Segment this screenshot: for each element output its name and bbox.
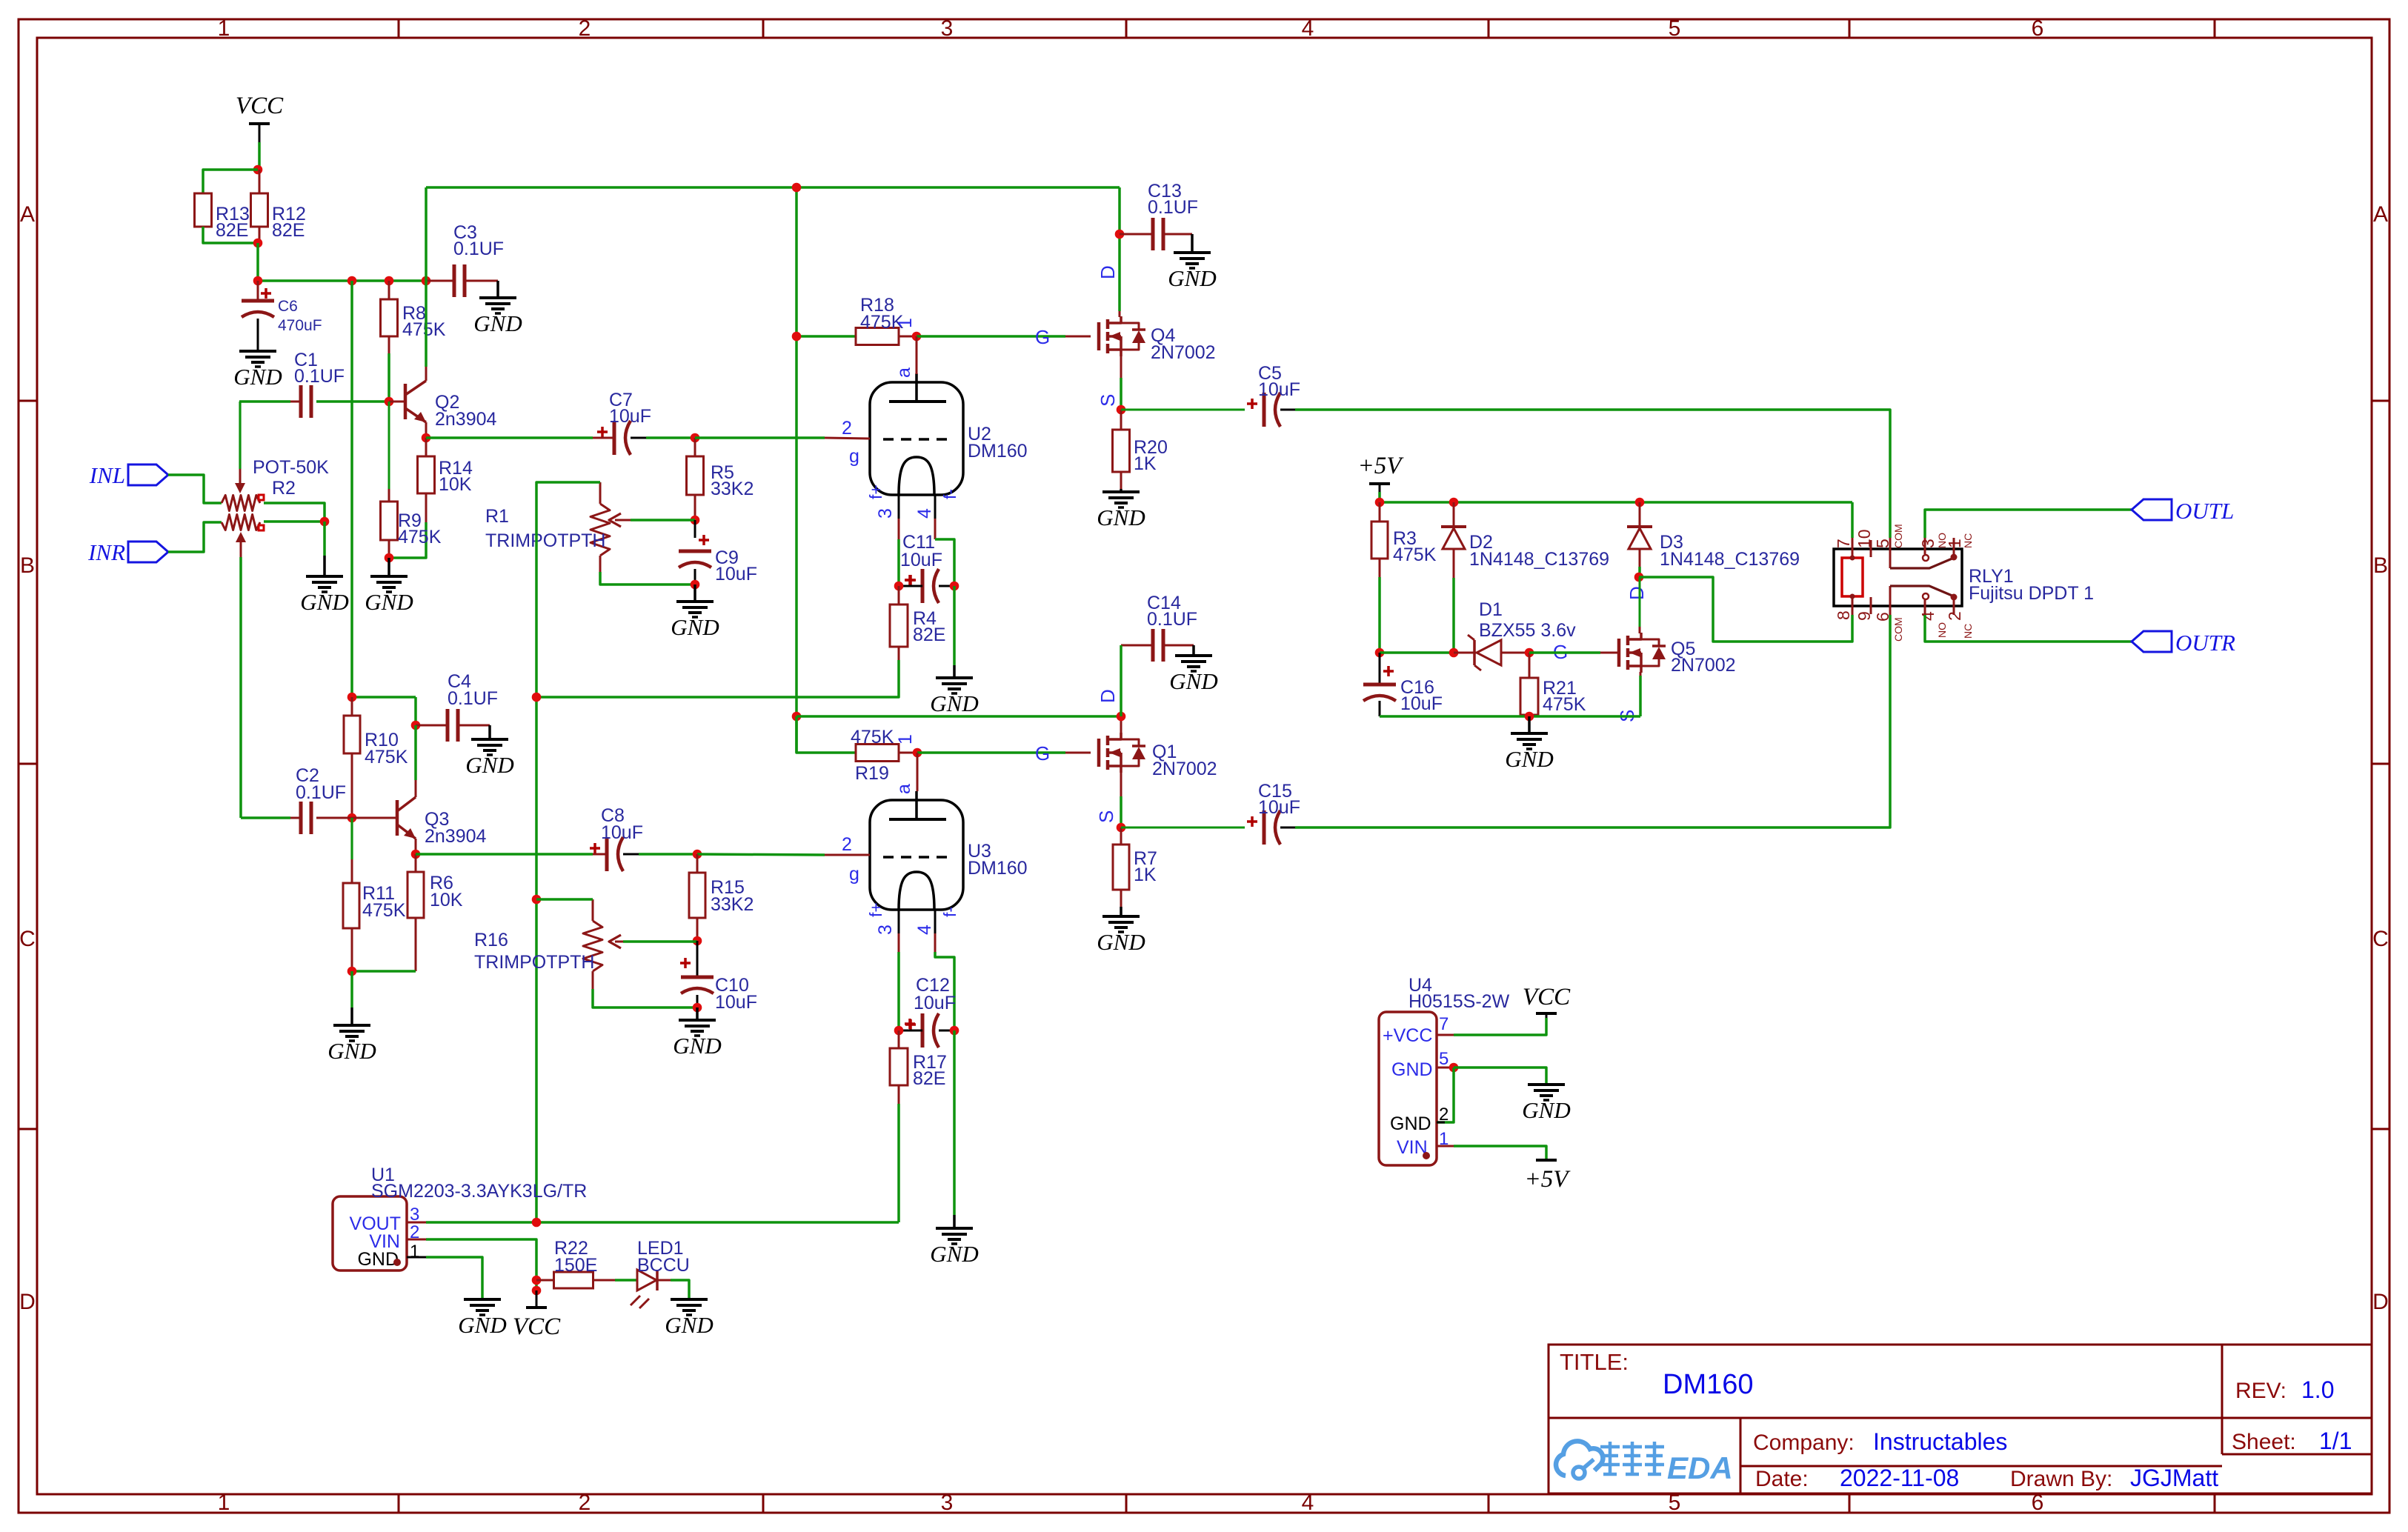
node gnd tap (1525, 712, 1534, 722)
ground under R7 (1097, 907, 1145, 955)
resistor R4 (890, 586, 945, 660)
wire rail941 left segment (352, 696, 416, 699)
ground under U1 (458, 1299, 506, 1338)
wire R1 bottom to C9 bottom (600, 572, 695, 585)
svg-text:NC: NC (1962, 533, 1974, 548)
capacitor C5 electrolytic (1121, 363, 1300, 427)
wire C4 down to Q3 collector (414, 725, 417, 780)
wire R18 to Q4 gate (917, 335, 1065, 338)
node rail967-C14 (1117, 712, 1126, 722)
node R18/U2 anode (912, 332, 922, 342)
svg-text:1N4148_C13769: 1N4148_C13769 (1660, 549, 1800, 570)
wire pot lower wiper to C2 (239, 557, 242, 818)
node rail-x475 (347, 276, 357, 286)
label S Q1 (1095, 810, 1117, 823)
ground under C14 (1169, 645, 1217, 694)
port OUTL (2132, 498, 2234, 524)
wire pot lower terminal (264, 520, 325, 523)
label S Q4 (1097, 394, 1119, 407)
svg-text:DM160: DM160 (1663, 1369, 1754, 1400)
resistor R3 (1371, 502, 1437, 577)
Q3 collector lead (415, 780, 417, 797)
svg-text:2N7002: 2N7002 (1671, 655, 1736, 676)
svg-text:0.1UF: 0.1UF (1148, 197, 1198, 218)
wire U1 gnd (426, 1257, 482, 1299)
svg-text:R19: R19 (855, 763, 889, 784)
svg-text:4: 4 (1302, 1491, 1314, 1515)
ground under U4 (1522, 1085, 1570, 1123)
power flag +5V bottom (1525, 1160, 1571, 1193)
svg-text:D: D (1097, 689, 1119, 703)
node R9/R14 bottom (385, 553, 394, 563)
svg-text:0.1UF: 0.1UF (448, 688, 498, 709)
svg-text:D: D (2372, 1290, 2389, 1314)
svg-text:a: a (894, 784, 914, 794)
ground under C4 (465, 725, 513, 778)
wire VIN to VCC (426, 1239, 536, 1290)
svg-text:475K: 475K (851, 727, 894, 747)
wire pin5 to pin2 (1437, 1068, 1454, 1122)
ground under C11 right (930, 665, 978, 716)
svg-text:OUTL: OUTL (2175, 498, 2234, 524)
node x1075-R18 (792, 332, 802, 342)
title block REV (2235, 1376, 2334, 1403)
wire Q1 source (1120, 796, 1122, 827)
wire C8 to R15/U3 grid (639, 853, 697, 856)
svg-text:B: B (20, 553, 35, 578)
wire C7 to R5/U2 grid (646, 436, 695, 439)
ground under R20 (1097, 489, 1145, 530)
svg-text:2n3904: 2n3904 (425, 826, 487, 847)
svg-text:GND: GND (465, 752, 513, 778)
svg-text:GND: GND (1168, 265, 1216, 291)
wire R19 to Q1 gate (917, 751, 1065, 754)
regulator U1 SGM2203 (333, 1165, 587, 1270)
wire R18 left (796, 335, 856, 338)
wire relay pin4 to OUTR (1925, 615, 2132, 642)
svg-text:0.1UF: 0.1UF (296, 782, 346, 803)
capacitor C13 (1120, 181, 1198, 250)
svg-text:475K: 475K (365, 747, 408, 767)
resistor R22 (536, 1238, 615, 1288)
svg-text:GND: GND (365, 589, 413, 615)
svg-text:10K: 10K (439, 474, 472, 495)
svg-text:EDA: EDA (1667, 1451, 1733, 1485)
svg-text:H0515S-2W: H0515S-2W (1408, 991, 1510, 1012)
Q4 source lead (1120, 356, 1122, 378)
svg-text:SGM2203-3.3AYK3LG/TR: SGM2203-3.3AYK3LG/TR (371, 1181, 587, 1202)
svg-text:A: A (20, 202, 35, 227)
potentiometer R2 POT-50K (222, 457, 329, 557)
svg-text:2: 2 (842, 418, 852, 439)
wire 5V rail y678 (1380, 501, 1852, 504)
svg-text:10uF: 10uF (609, 406, 651, 427)
label D Q5 (1626, 586, 1648, 600)
svg-text:1: 1 (895, 734, 916, 745)
svg-text:150E: 150E (554, 1255, 597, 1276)
svg-text:470uF: 470uF (278, 317, 322, 334)
svg-text:f-: f- (940, 489, 959, 499)
diode D2 1N4148 (1441, 502, 1609, 578)
wire R6 bottom to R11 bottom (352, 970, 416, 973)
resistor R9 (381, 402, 442, 558)
resistor R20 (1113, 410, 1168, 489)
svg-text:3: 3 (875, 508, 896, 519)
wire C2 left corner (241, 816, 290, 819)
svg-text:6: 6 (1873, 612, 1892, 622)
wire x1075 to R19 (796, 716, 856, 753)
node VCC/R22 b (532, 1286, 542, 1296)
wire U2 pin3 down (897, 539, 900, 586)
U1 VOUT lead (407, 1222, 426, 1224)
svg-text:POT-50K: POT-50K (253, 457, 329, 478)
svg-text:S: S (1095, 810, 1117, 823)
transistor Q2 2n3904 (389, 381, 497, 430)
svg-text:TRIMPOTPTH: TRIMPOTPTH (474, 952, 595, 973)
node C4 tap (411, 721, 421, 730)
svg-text:3: 3 (875, 925, 896, 935)
diode D3 1N4148 (1627, 502, 1800, 570)
Q3 emitter lead (415, 839, 417, 854)
wire rail941 corner down to C4 (414, 697, 417, 725)
svg-text:10uF: 10uF (601, 822, 643, 843)
resistor R12 (251, 170, 306, 243)
svg-text:475K: 475K (362, 900, 406, 921)
capacitor C4 (416, 671, 498, 742)
svg-text:REV:: REV: (2235, 1379, 2286, 1403)
wire relay pin3 to OUTL (1925, 510, 2132, 538)
svg-text:+5V: +5V (1358, 453, 1405, 479)
svg-text:Drawn By:: Drawn By: (2010, 1467, 2112, 1491)
ground under C12 right (930, 1215, 978, 1267)
wire C16 bottom to source (1380, 715, 1640, 718)
svg-text:VCC: VCC (236, 93, 284, 119)
ground under pot (300, 556, 348, 615)
svg-text:B: B (2373, 553, 2388, 578)
wire C14 to Q1 drain (1120, 645, 1122, 716)
svg-text:2: 2 (579, 1491, 591, 1515)
label D Q4 (1097, 265, 1119, 279)
svg-text:g: g (849, 446, 859, 467)
svg-text:82E: 82E (913, 1068, 945, 1089)
svg-text:2: 2 (579, 16, 591, 41)
capacitor C8 electrolytic (590, 805, 643, 871)
node VCC/R22 a (532, 1276, 542, 1285)
svg-text:GND: GND (327, 1038, 376, 1064)
svg-text:Instructables: Instructables (1873, 1428, 2007, 1455)
svg-text:5: 5 (1873, 539, 1892, 548)
wire C5 to relay COM5 (1295, 410, 1890, 538)
svg-text:Fujitsu DPDT 1: Fujitsu DPDT 1 (1969, 583, 2094, 604)
svg-text:1: 1 (218, 16, 230, 41)
svg-text:D: D (1626, 586, 1648, 600)
ground under R11 (327, 1008, 376, 1064)
tube U3 DM160 (870, 791, 1028, 910)
node rail678-R3 (1375, 498, 1385, 507)
node R3/C16/D1 (1375, 648, 1385, 658)
zener diode D1 BZX55 3.6v (1454, 599, 1576, 670)
wire R22 to LED (615, 1279, 637, 1282)
label S Q5 (1616, 710, 1638, 722)
node rail678-D3 (1635, 498, 1645, 507)
wire C1 to Q2 base (316, 400, 389, 403)
wire U2 pin4 down (935, 539, 954, 586)
svg-text:f+: f+ (866, 902, 885, 917)
svg-text:10K: 10K (430, 890, 463, 910)
wire to gnd (350, 971, 353, 1008)
wire VCC rail y379 (258, 279, 426, 282)
svg-text:GND: GND (1391, 1059, 1433, 1080)
svg-text:9: 9 (1855, 611, 1874, 621)
svg-text:R2: R2 (272, 478, 296, 499)
svg-text:GND: GND (357, 1249, 399, 1270)
wire D2 to zener net (1452, 578, 1455, 653)
node rail941-R10 (347, 693, 357, 702)
title block TITLE text (1560, 1349, 1629, 1375)
svg-text:NO: NO (1936, 622, 1948, 638)
svg-text:S: S (1097, 394, 1119, 407)
svg-text:GND: GND (671, 614, 719, 640)
resistor R6 (408, 854, 463, 971)
dc-dc converter U4 H0515S-2W (1379, 975, 1510, 1165)
U2 pin4 lead (914, 489, 959, 539)
transistor Q3 2n3904 (352, 797, 487, 847)
svg-text:+5V: +5V (1525, 1166, 1571, 1193)
svg-text:5: 5 (1439, 1049, 1449, 1069)
JLC EDA logo (1556, 1441, 1733, 1485)
node D1/R21/gate (1525, 648, 1534, 658)
wire Q2 collector to rail (425, 281, 428, 367)
wire top rail right corner to Q4 drain (1118, 187, 1121, 311)
title block Sheet (2232, 1428, 2352, 1454)
label G Q1 (1035, 742, 1050, 765)
capacitor C3 (426, 222, 504, 297)
title block Date (1755, 1465, 1959, 1491)
label D Q1 (1097, 689, 1119, 703)
svg-text:INR: INR (87, 539, 125, 565)
svg-text:2n3904: 2n3904 (435, 409, 497, 430)
wire pot wiper up to C1 (239, 402, 241, 484)
svg-text:Sheet:: Sheet: (2232, 1430, 2296, 1454)
Q5 drain lead (1639, 577, 1641, 633)
svg-text:C: C (2372, 927, 2389, 951)
svg-text:10uF: 10uF (715, 992, 757, 1013)
svg-text:G: G (1035, 742, 1050, 765)
svg-text:1.0: 1.0 (2301, 1376, 2334, 1403)
U3 grid pin (825, 834, 870, 885)
svg-text:GND: GND (1169, 668, 1217, 694)
port INR (87, 539, 168, 565)
svg-text:10uF: 10uF (900, 550, 942, 570)
title block Company (1753, 1428, 2007, 1455)
resistor R11 (343, 818, 406, 971)
node R19/U3 anode (913, 748, 922, 758)
capacitor C14 (1121, 593, 1197, 662)
wire coil return (1639, 577, 1852, 642)
relay RLY1 Fujitsu DPDT (1834, 524, 2094, 642)
trimpot R1 TRIMPOTPTH (485, 482, 631, 572)
wire R16 top to x724 (536, 898, 593, 901)
svg-text:3: 3 (941, 1491, 954, 1515)
tube U2 DM160 (870, 373, 1028, 495)
wire x474 vertical to lower section (350, 281, 353, 697)
svg-text:TRIMPOTPTH: TRIMPOTPTH (485, 530, 606, 551)
node rail-C6 (253, 276, 263, 286)
node C13 tap (1115, 230, 1125, 239)
wire R16 bottom (593, 989, 697, 1008)
svg-text:GND: GND (300, 589, 348, 615)
label G Q4 (1035, 326, 1050, 348)
svg-text:R16: R16 (474, 930, 508, 950)
wire LED to gnd (671, 1280, 689, 1299)
svg-text:C6: C6 (278, 298, 298, 315)
LED cathode lead (657, 1279, 671, 1282)
svg-text:10uF: 10uF (914, 993, 956, 1013)
wire relay pin7 to 5V rail (1851, 502, 1854, 538)
svg-text:10uF: 10uF (1400, 693, 1443, 714)
svg-text:TITLE:: TITLE: (1560, 1349, 1629, 1375)
svg-text:A: A (2373, 202, 2388, 227)
svg-text:GND: GND (1505, 746, 1553, 772)
wire Q2 emitter to C7 (426, 436, 593, 439)
svg-text:VCC: VCC (1523, 984, 1571, 1010)
wire pot to ground (323, 522, 326, 556)
power flag VCC bottom (513, 1290, 561, 1340)
port OUTR (2132, 630, 2235, 656)
wire pin7 to VCC (1454, 1018, 1546, 1035)
resistor R18 (856, 295, 917, 345)
U4 pin2 stub (1437, 1122, 1445, 1124)
node rail-corner575 (422, 276, 431, 286)
wire R8 to Q2 base (388, 353, 390, 402)
capacitor C7 electrolytic (593, 390, 651, 455)
svg-text:2N7002: 2N7002 (1152, 759, 1217, 779)
wire VCC to R12/R13 top (258, 142, 261, 170)
U4 pin5 lead (1437, 1067, 1454, 1069)
svg-text:475K: 475K (402, 319, 446, 340)
wire +5V rail (1378, 492, 1381, 502)
wire U2 filament gnd (953, 586, 956, 665)
node Q1 source / R7 / C15 (1117, 823, 1126, 833)
wire C15 to relay COM6 (1295, 615, 1890, 827)
power flag VCC top (236, 93, 284, 142)
svg-text:4: 4 (1302, 16, 1314, 41)
wire U3 pin3 down (897, 952, 900, 1030)
wire R14 bottom (389, 522, 426, 558)
svg-text:4: 4 (1918, 611, 1938, 621)
Q4 drain lead (1119, 311, 1121, 317)
ground under R21 (1505, 716, 1553, 772)
node C12 right (950, 1026, 959, 1036)
wire grid net to U2 (695, 436, 825, 439)
wire R1 top to x724 net (536, 482, 600, 1222)
wire gate to Q5 (1529, 651, 1600, 654)
wire pot upper terminal (264, 503, 325, 522)
node D2/zener (1449, 648, 1459, 658)
U2 grid pin (825, 418, 870, 467)
svg-text:475K: 475K (1543, 694, 1586, 715)
wire rail967 (796, 715, 1121, 718)
svg-text:3: 3 (1918, 539, 1938, 548)
svg-text:33K2: 33K2 (711, 479, 754, 499)
svg-text:475K: 475K (398, 527, 442, 547)
ground under LED (665, 1299, 713, 1338)
svg-text:1/1: 1/1 (2319, 1428, 2352, 1454)
svg-text:4: 4 (914, 925, 935, 935)
wire x1075 vertical (795, 187, 798, 753)
node C9 bottom (691, 580, 700, 590)
resistor R21 (1520, 653, 1586, 716)
U1 VIN lead (407, 1239, 426, 1241)
svg-text:10uF: 10uF (715, 564, 757, 585)
svg-text:D: D (19, 1290, 36, 1314)
U3 pin3 lead (866, 902, 899, 952)
Q2 emitter lead (425, 422, 428, 438)
resistor R7 (1113, 827, 1157, 907)
svg-text:GND: GND (1097, 504, 1145, 530)
svg-text:g: g (849, 864, 859, 885)
wire pin1 to +5V (1454, 1146, 1546, 1160)
resistor R13 (195, 193, 250, 241)
title block grid (1549, 1345, 2372, 1493)
node R5/C9/wiper (691, 516, 700, 525)
node Q2 emitter (422, 433, 431, 443)
svg-text:BZX55 3.6v: BZX55 3.6v (1479, 620, 1576, 641)
svg-text:BCCU: BCCU (637, 1255, 690, 1276)
svg-text:2N7002: 2N7002 (1151, 342, 1216, 363)
node x724 on rail941 (532, 693, 542, 702)
led LED1 BCCU (631, 1238, 690, 1308)
wire R13 top link (203, 170, 258, 193)
wire Q5 source corner (1639, 676, 1642, 716)
n-mosfet Q5 2N7002 (1600, 633, 1736, 676)
node R15/C10/wiper (693, 936, 702, 946)
svg-text:C: C (19, 927, 36, 951)
node C11 left (894, 582, 904, 591)
svg-text:a: a (894, 367, 914, 378)
svg-text:1K: 1K (1134, 865, 1157, 885)
svg-text:10uF: 10uF (1258, 797, 1300, 818)
power flag +5V (1358, 453, 1405, 492)
wire INR to pot (168, 522, 222, 552)
ground under C3 (473, 281, 522, 336)
U3 anode pin (894, 753, 917, 794)
node x724-VOUT (532, 1218, 542, 1228)
svg-text:DM160: DM160 (968, 858, 1028, 879)
wire R13 bottom link (203, 227, 258, 243)
node C10 bottom (693, 1003, 702, 1013)
svg-text:INL: INL (89, 462, 125, 488)
svg-text:1: 1 (410, 1242, 419, 1262)
capacitor C12 electrolytic (899, 975, 956, 1048)
svg-text:GND: GND (1097, 929, 1145, 955)
trimpot R16 TRIMPOTPTH (474, 899, 623, 989)
svg-text:GND: GND (1390, 1113, 1431, 1134)
wire R1 wiper to node (631, 519, 695, 522)
node Q3 emitter (411, 850, 421, 859)
U2 anode pin (894, 336, 917, 378)
capacitor C9 electrolytic (679, 520, 757, 585)
capacitor C16 electrolytic (1363, 653, 1443, 716)
wire pin5 to gnd (1454, 1068, 1546, 1085)
node rail678-D2 (1449, 498, 1459, 507)
node top rail x1075 (792, 183, 802, 193)
svg-text:82E: 82E (216, 220, 248, 241)
wire to VCC rail (256, 243, 259, 281)
ground under C13 (1168, 234, 1216, 291)
node C8/R15 (693, 850, 702, 859)
svg-text:3: 3 (941, 16, 954, 41)
